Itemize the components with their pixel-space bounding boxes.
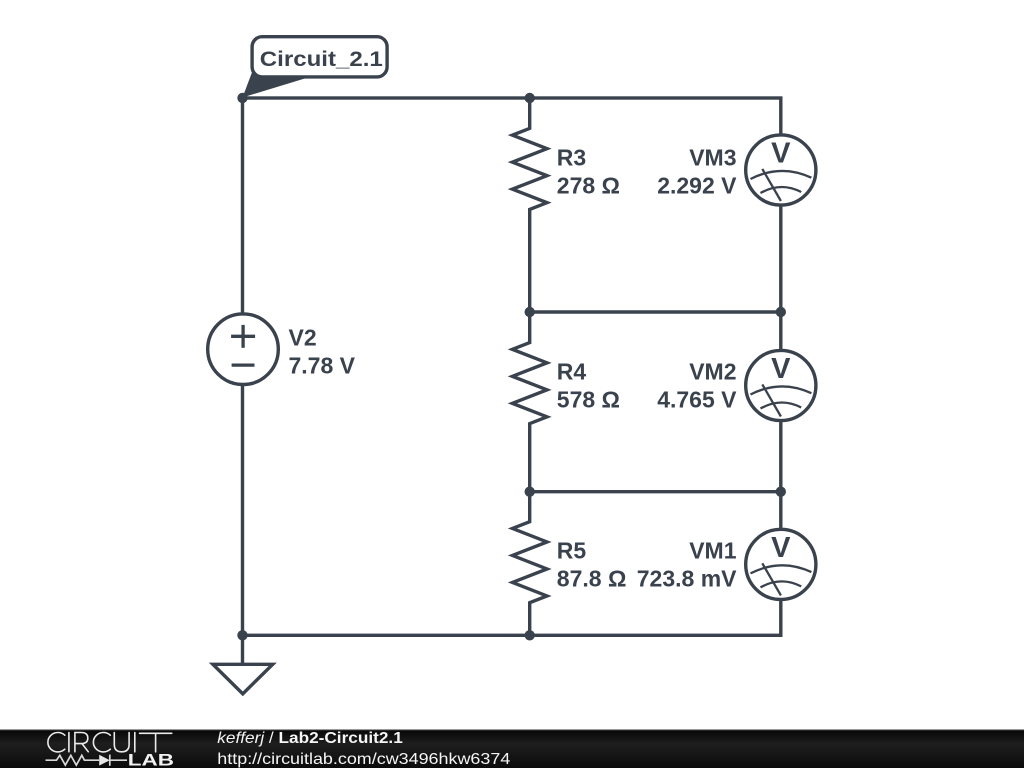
svg-text:http://circuitlab.com/cw3496hk: http://circuitlab.com/cw3496hkw6374 — [217, 751, 510, 768]
svg-text:LAB: LAB — [128, 751, 174, 768]
svg-text:278 Ω: 278 Ω — [557, 172, 620, 198]
svg-text:578 Ω: 578 Ω — [557, 386, 620, 412]
svg-text:VM2: VM2 — [689, 358, 736, 384]
svg-text:Circuit_2.1: Circuit_2.1 — [260, 48, 383, 71]
svg-text:R5: R5 — [557, 538, 587, 564]
svg-text:R4: R4 — [557, 358, 587, 384]
svg-text:V: V — [771, 532, 791, 564]
svg-text:V: V — [771, 138, 791, 170]
svg-text:V: V — [771, 353, 791, 385]
svg-text:VM3: VM3 — [689, 144, 736, 170]
svg-text:723.8 mV: 723.8 mV — [637, 566, 737, 592]
svg-text:V2: V2 — [289, 324, 317, 350]
svg-text:7.78 V: 7.78 V — [289, 352, 356, 378]
svg-text:kefferj / Lab2-Circuit2.1: kefferj / Lab2-Circuit2.1 — [217, 730, 403, 747]
svg-text:87.8 Ω: 87.8 Ω — [557, 566, 627, 592]
svg-text:VM1: VM1 — [689, 538, 737, 564]
svg-text:2.292 V: 2.292 V — [657, 172, 737, 198]
svg-text:R3: R3 — [557, 144, 586, 170]
svg-text:4.765 V: 4.765 V — [657, 386, 737, 412]
